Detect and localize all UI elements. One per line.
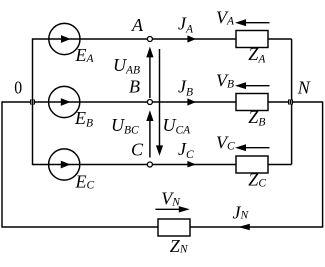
arrowhead voltage V_B (points left) bbox=[235, 82, 246, 89]
wire phase B horizontal bbox=[2, 101, 236, 103]
wire bottom neutral left of Z_N bbox=[2, 226, 158, 228]
arrowhead voltage U_CA (points down) bbox=[156, 145, 163, 155]
voltage arrow V_B line bbox=[243, 85, 270, 87]
svg-text:B: B bbox=[129, 77, 140, 97]
voltage arrow V_N line bbox=[155, 208, 179, 210]
wire phase C horizontal bbox=[33, 164, 237, 166]
node C terminal circle bbox=[147, 162, 152, 167]
arrowhead voltage U_BC (points up) bbox=[146, 110, 153, 121]
arrowhead voltage V_C (points left) bbox=[235, 144, 246, 151]
wire phase C right of Z_C to bus bbox=[268, 164, 292, 166]
arrowhead voltage V_N (points right) bbox=[179, 206, 190, 212]
wire node N to right edge bbox=[291, 101, 323, 103]
wire far-left vertical bbox=[1, 101, 3, 227]
wire bottom neutral right of Z_N bbox=[190, 226, 323, 228]
voltage arrow V_A line bbox=[243, 22, 270, 24]
voltage arrow U_CA line bbox=[159, 49, 161, 148]
impedance Z_C box bbox=[236, 156, 268, 173]
voltage arrow U_AB line bbox=[149, 52, 151, 98]
voltage arrow U_BC line bbox=[149, 115, 151, 158]
wire right vertical bus bbox=[291, 39, 293, 165]
svg-text:A: A bbox=[131, 15, 144, 35]
svg-text:C: C bbox=[131, 140, 144, 160]
wire left vertical from A row through node 0 to C row bbox=[32, 38, 34, 165]
source E_B circle bbox=[49, 86, 80, 117]
impedance Z_A box bbox=[236, 31, 268, 48]
wire far-right vertical bbox=[322, 101, 324, 227]
arrowhead current J_N (points left) bbox=[238, 224, 250, 231]
node A terminal circle bbox=[147, 37, 152, 42]
wire phase B right of Z_B to node N bbox=[268, 101, 291, 103]
wire phase A horizontal bbox=[33, 38, 237, 40]
source E_A circle bbox=[49, 23, 80, 54]
arrowhead current J_B bbox=[187, 98, 196, 105]
svg-text:0: 0 bbox=[14, 78, 22, 98]
arrowhead voltage U_AB (points up) bbox=[146, 47, 153, 58]
impedance Z_B box bbox=[236, 94, 268, 111]
arrowhead current J_C bbox=[187, 161, 196, 168]
arrowhead source E_C bbox=[61, 161, 71, 169]
svg-text:N: N bbox=[297, 77, 311, 97]
arrowhead source E_A bbox=[61, 35, 71, 43]
node B terminal circle bbox=[147, 100, 152, 105]
node N junction square bbox=[288, 100, 293, 105]
voltage arrow V_C line bbox=[243, 147, 270, 149]
arrowhead source E_B bbox=[61, 98, 71, 106]
wire phase A right of Z_A to bus bbox=[268, 38, 292, 40]
node 0 junction square bbox=[30, 100, 35, 105]
arrowhead voltage V_A (points left) bbox=[235, 19, 246, 26]
impedance Z_N box bbox=[158, 219, 190, 236]
source E_C circle bbox=[49, 149, 80, 180]
arrowhead current J_A bbox=[187, 35, 196, 42]
